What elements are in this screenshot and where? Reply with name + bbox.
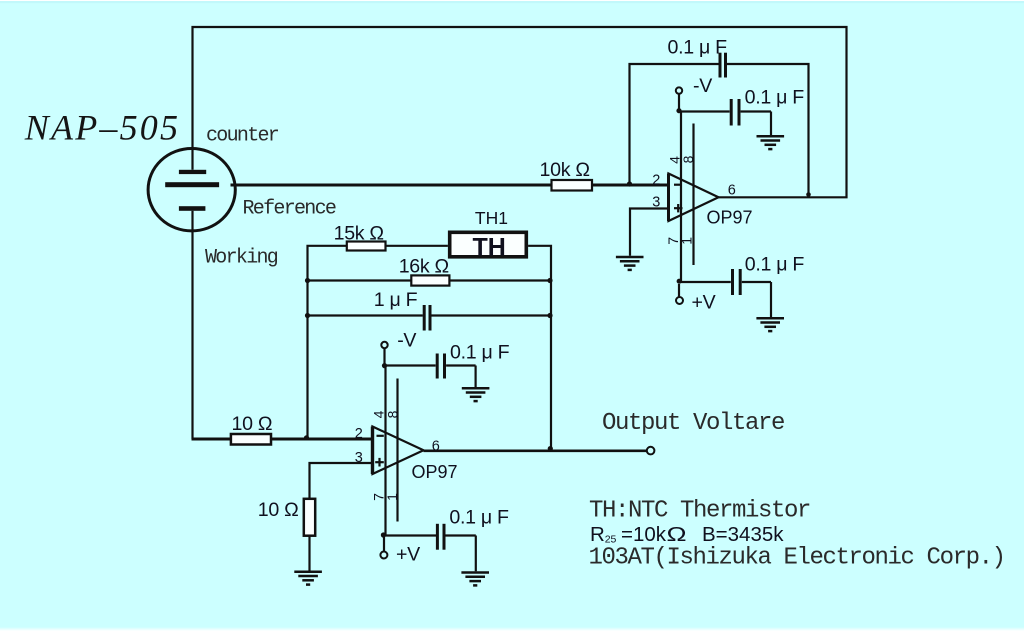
svg-text:10k Ω: 10k Ω	[540, 159, 590, 181]
svg-text:6: 6	[432, 438, 440, 454]
svg-text:103AT(Ishizuka Electronic Corp: 103AT(Ishizuka Electronic Corp.)	[589, 545, 1005, 572]
svg-text:Reference: Reference	[243, 197, 336, 220]
svg-text:3: 3	[355, 450, 363, 466]
svg-text:-V: -V	[397, 329, 416, 351]
svg-text:3: 3	[652, 195, 660, 211]
svg-text:TH:NTC Thermistor: TH:NTC Thermistor	[589, 498, 810, 525]
svg-text:1: 1	[679, 237, 695, 245]
svg-text:8: 8	[385, 410, 401, 418]
svg-text:0.1 μ F: 0.1 μ F	[449, 507, 509, 529]
svg-text:Output Voltare: Output Voltare	[602, 410, 784, 437]
svg-text:1: 1	[384, 493, 400, 501]
svg-text:NAP–505: NAP–505	[24, 108, 180, 148]
svg-text:0.1 μ F: 0.1 μ F	[745, 254, 805, 276]
svg-text:OP97: OP97	[412, 462, 458, 482]
svg-text:8: 8	[680, 155, 696, 163]
svg-text:Working: Working	[205, 247, 278, 270]
svg-text:TH1: TH1	[475, 208, 508, 228]
svg-text:Ω: Ω	[667, 523, 687, 546]
svg-text:2: 2	[652, 173, 660, 189]
svg-text:6: 6	[728, 183, 736, 199]
svg-text:-V: -V	[693, 75, 712, 97]
svg-text:2: 2	[355, 426, 363, 442]
svg-text:counter: counter	[206, 125, 279, 148]
svg-text:OP97: OP97	[707, 208, 753, 228]
svg-text:0.1 μ F: 0.1 μ F	[745, 87, 805, 109]
svg-text:15k Ω: 15k Ω	[334, 222, 384, 244]
svg-text:10 Ω: 10 Ω	[258, 499, 299, 521]
svg-text:16k Ω: 16k Ω	[399, 256, 449, 278]
svg-text:+V: +V	[692, 292, 716, 314]
svg-text:1 μ F: 1 μ F	[374, 289, 418, 311]
svg-text:0.1 μ F: 0.1 μ F	[450, 342, 510, 364]
svg-text:10 Ω: 10 Ω	[232, 413, 273, 435]
svg-text:+V: +V	[396, 544, 420, 566]
svg-text:TH: TH	[473, 234, 506, 262]
svg-text:0.1 μ F: 0.1 μ F	[668, 37, 728, 59]
